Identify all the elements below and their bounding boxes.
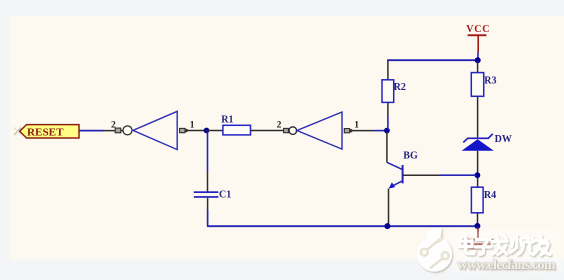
svg-text:www.elecfans.com: www.elecfans.com [458, 258, 556, 273]
svg-text:RESET: RESET [27, 128, 64, 139]
svg-text:2: 2 [111, 121, 116, 131]
svg-text:BG: BG [403, 151, 418, 162]
svg-text:1: 1 [354, 121, 359, 131]
svg-text:R3: R3 [484, 76, 496, 87]
svg-text:R4: R4 [484, 190, 496, 201]
svg-text:VCC: VCC [466, 24, 490, 35]
svg-text:R2: R2 [394, 82, 406, 93]
svg-text:C1: C1 [219, 190, 231, 201]
svg-text:1: 1 [190, 120, 195, 130]
svg-text:DW: DW [495, 134, 512, 145]
svg-text:2: 2 [277, 121, 282, 131]
svg-text:R1: R1 [221, 115, 233, 126]
